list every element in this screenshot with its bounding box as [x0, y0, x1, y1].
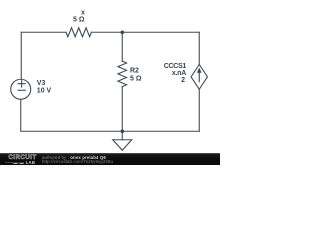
wire V3 bottom to bottom-left corner [20, 99, 22, 131]
ground stub [121, 131, 123, 140]
svg-text:5 Ω: 5 Ω [73, 17, 85, 24]
CCCS1 diamond [191, 64, 207, 89]
resistor x body [66, 28, 91, 37]
resistor R2 body [118, 61, 127, 87]
svg-text:x: x [81, 9, 85, 16]
watermark bar [0, 153, 220, 165]
svg-text:V3: V3 [37, 80, 46, 87]
V3 plus sign [18, 81, 25, 87]
wire bottom horizontal [21, 130, 199, 132]
svg-text:R2: R2 [130, 68, 139, 75]
wire top-left to resistor x [21, 31, 66, 33]
wire CCCS1 bottom to bottom-right corner [198, 89, 200, 131]
wire resistor x to top-right corner [91, 31, 199, 33]
junction dot bottom (ground) [121, 130, 125, 134]
svg-text:2: 2 [181, 77, 185, 84]
CircuitLab logo [9, 155, 37, 161]
wire left vertical (top corner to V3 top) [20, 32, 22, 79]
wire R2 bottom to bottom wire [121, 87, 123, 132]
svg-text:5 Ω: 5 Ω [130, 76, 142, 83]
wire middle vertical top (junction to R2) [121, 32, 123, 61]
V3 minus sign [18, 89, 25, 91]
voltage source V3 circle [11, 79, 31, 99]
svg-text:10 V: 10 V [37, 87, 52, 94]
ground triangle [113, 140, 132, 151]
junction dot top (R2/top wire) [121, 31, 125, 35]
watermark text line 1 [42, 155, 106, 160]
CCCS1 arrow [197, 68, 202, 83]
wire right vertical top (corner to CCCS1) [198, 32, 200, 64]
watermark text line 2 [42, 159, 113, 164]
svg-text:x.nA: x.nA [172, 70, 186, 77]
